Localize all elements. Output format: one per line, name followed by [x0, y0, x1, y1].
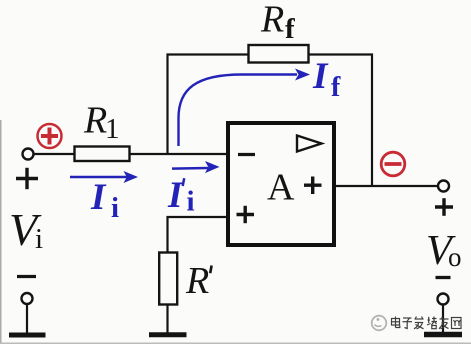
svg-text:i: i — [187, 186, 195, 218]
Vo terminal plus sign — [435, 198, 453, 216]
Vo bottom terminal circle — [438, 294, 449, 305]
label R' — [185, 260, 212, 302]
label R1 — [83, 100, 120, 146]
wire: R1 to op-amp inverting input — [130, 153, 229, 155]
wire: Rf to right vertical — [308, 53, 373, 55]
svg-text:f: f — [331, 72, 341, 103]
op-amp non-inverting input plus sign — [237, 206, 255, 223]
label If — [312, 56, 341, 103]
svg-text:o: o — [448, 242, 462, 272]
watermark text 电子发烧友网 — [392, 317, 462, 329]
label Vo — [426, 228, 462, 274]
label I'i — [167, 175, 195, 218]
Vo terminal minus sign — [436, 276, 451, 279]
resistor R' — [159, 253, 177, 305]
svg-text:I: I — [312, 56, 329, 97]
wire: input circle to R1 — [34, 153, 76, 155]
node: summing junction (feedback tap) — [166, 54, 168, 155]
Vi bottom terminal circle — [22, 293, 33, 304]
blue current arrow I'i — [172, 161, 220, 173]
svg-text:i: i — [111, 192, 119, 224]
output terminal Vo top circle — [438, 181, 449, 192]
ground under R' — [149, 332, 187, 337]
svg-text:R: R — [185, 260, 209, 302]
watermark logo circle — [372, 316, 387, 331]
red minus polarity symbol at output — [381, 152, 405, 176]
Vi terminal plus sign — [16, 168, 38, 189]
wire: Vi bottom circle to ground — [26, 304, 28, 333]
svg-text:R: R — [260, 0, 284, 41]
red plus polarity symbol at input — [38, 124, 62, 148]
left image-edge artifact line — [0, 120, 2, 344]
bottom image-edge artifact line — [0, 343, 471, 344]
wire: + input down to R' — [166, 216, 168, 254]
svg-text:I: I — [167, 175, 184, 216]
svg-text:R: R — [83, 100, 107, 142]
ground under Vi — [9, 333, 46, 338]
svg-text:1: 1 — [105, 113, 120, 145]
op-amp inverting input minus sign — [238, 153, 255, 156]
resistor R1 — [75, 147, 130, 162]
wire: Vo bottom circle to ground — [442, 305, 444, 333]
svg-text:I: I — [90, 177, 107, 218]
resistor Rf — [249, 45, 309, 63]
wire: right vertical feedback to output — [371, 54, 373, 187]
ground under Vo — [424, 332, 462, 338]
svg-text:i: i — [35, 223, 43, 255]
label Ii — [90, 177, 119, 224]
op-amp output plus sign — [304, 177, 322, 195]
svg-text:f: f — [285, 13, 295, 45]
op-amp triangle symbol — [297, 136, 322, 152]
label Vi — [9, 204, 43, 255]
label Rf — [260, 0, 295, 45]
wire: R' to ground — [166, 304, 168, 333]
wire: top left horizontal to Rf — [167, 53, 250, 55]
svg-text:A: A — [267, 167, 295, 209]
blue current arrow Ii — [70, 171, 138, 183]
Vi terminal minus sign — [17, 275, 36, 278]
input terminal Vi top circle — [23, 149, 34, 160]
op-amp U1 box — [228, 123, 334, 245]
blue feedback current curve If — [179, 69, 311, 147]
wire: op-amp + input stub — [167, 216, 229, 218]
wire: op-amp output — [334, 185, 439, 187]
